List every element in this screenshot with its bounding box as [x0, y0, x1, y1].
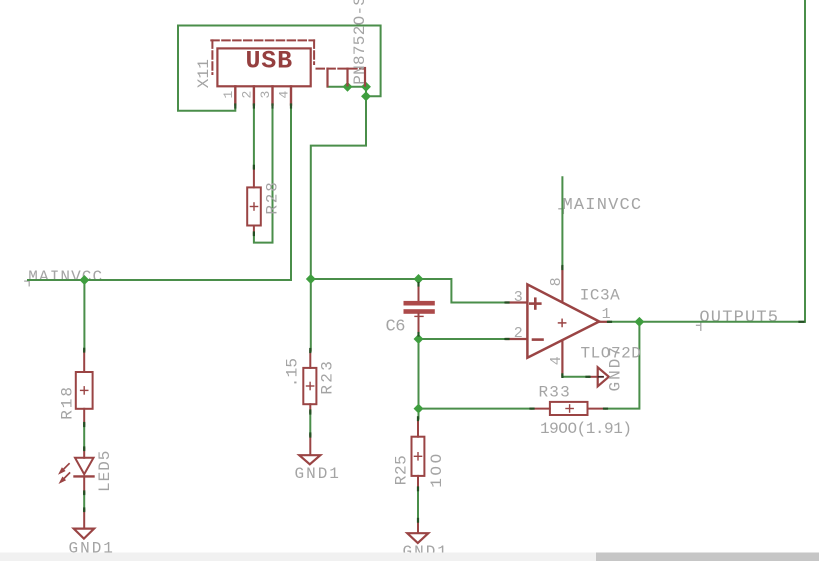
op-amp plus input symbol [530, 299, 540, 309]
resistor R23 plus [307, 382, 314, 389]
wire down to R23 [310, 279, 312, 351]
resistor R33 lead right [588, 408, 606, 410]
svg-text:4: 4 [548, 356, 565, 365]
LED5 cathode bar [75, 475, 94, 477]
resistor R23 lead bottom [309, 404, 311, 412]
wire USB pin2 down [253, 107, 255, 168]
svg-text:8: 8 [548, 277, 565, 286]
op-amp IC3A triangle [527, 284, 599, 357]
LED5 triangle [75, 458, 94, 474]
scrollbar thumb [596, 553, 819, 561]
connector X11 shield pin c [364, 68, 366, 86]
resistor R25 plus [414, 453, 421, 460]
wire op-amp pin4 to GND7 [562, 376, 589, 377]
wire R23 to GND1 [309, 412, 311, 435]
scrollbar track [0, 553, 819, 561]
wire shield vertical [365, 87, 367, 97]
svg-text:3: 3 [258, 91, 273, 99]
resistor R18 plus [81, 387, 88, 394]
connector X11 shield pin b [346, 69, 348, 86]
junction C6 top [414, 274, 424, 284]
wire node to op-amp pin3 [311, 279, 507, 303]
svg-text:4: 4 [277, 91, 292, 99]
ground GND1 mid symbol [299, 455, 320, 464]
connector X11 dashed outline left [211, 40, 213, 74]
svg-text:C6: C6 [386, 318, 406, 337]
svg-text:PN8752O-S: PN8752O-S [351, 0, 369, 85]
connector X11 dashed outline right [313, 40, 315, 64]
resistor R18 lead top [83, 350, 85, 372]
ground GND1 mid lead [309, 435, 311, 458]
capacitor C6 plate top [404, 301, 435, 306]
capacitor C6 lead top [418, 284, 420, 301]
LED5 arrow 1 [58, 464, 69, 475]
ground GND1 left symbol [74, 529, 94, 539]
wire pin1 loop (USB pin1 to top rail) [178, 26, 381, 111]
LED5 arrow 2 [59, 473, 70, 484]
wire tip darks [84, 166, 803, 522]
resistor R33 body [550, 402, 588, 415]
junction C6 bottom [414, 334, 424, 344]
junction shield left [343, 82, 353, 92]
pin tip dark 3 [271, 105, 273, 108]
svg-text:USB: USB [246, 47, 293, 76]
svg-text:R18: R18 [59, 385, 77, 420]
ground GND7 lead [589, 376, 598, 378]
svg-text:MAINVCC: MAINVCC [563, 196, 643, 215]
connector X11 dashed shield line [317, 68, 366, 70]
junction output [634, 317, 644, 327]
svg-text:1: 1 [602, 306, 611, 323]
junction shield right [361, 82, 371, 92]
op-amp pin 4 lead [561, 341, 563, 376]
junction R25 top [414, 404, 424, 414]
wire shield horizontal [328, 86, 367, 88]
ground GND7 inner tick [599, 376, 604, 378]
wire op-amp output to OUTPUT5 [609, 321, 805, 323]
svg-text:R28: R28 [264, 180, 282, 214]
wire C6 bottom to R25 [418, 334, 420, 419]
svg-text:.15: .15 [284, 358, 302, 387]
pin tip dark 4 [290, 105, 292, 108]
ground GND1 bottom symbol [407, 533, 428, 543]
resistor R33 plus [566, 405, 573, 412]
junction R23 column [306, 274, 316, 284]
label origin cross MAINVCC left [25, 280, 29, 285]
op-amp pin 3 lead [506, 301, 526, 303]
resistor R28 lead bottom [253, 226, 255, 234]
svg-text:IC3A: IC3A [580, 286, 620, 304]
junction below shield [361, 91, 371, 101]
svg-text:OUTPUT5: OUTPUT5 [699, 309, 779, 328]
connector X11 dashed outline top [211, 39, 314, 41]
wire MAINVCC down to R18 [83, 280, 85, 350]
svg-text:GND1: GND1 [295, 465, 341, 483]
wire C6 bottom to op-amp pin2 [419, 338, 507, 340]
op-amp pin 2 lead [506, 338, 526, 340]
svg-text:1: 1 [221, 91, 236, 99]
resistor R28 plus [250, 203, 257, 210]
resistor R25 body [412, 437, 425, 476]
svg-text:R33: R33 [539, 383, 571, 401]
connector X11 pin 2 stub [253, 86, 255, 104]
junction MAINVCC R18 [79, 275, 89, 285]
svg-text:MAINVCC: MAINVCC [28, 268, 103, 286]
wire C6 top junction stub [418, 279, 420, 285]
label origin cross MAINVCC top [559, 208, 564, 213]
wire LED5 to GND1 [83, 493, 85, 510]
connector X11 shield pin a [326, 69, 328, 87]
svg-text:1OO: 1OO [428, 451, 446, 488]
resistor R25 lead top [417, 419, 419, 437]
label origin cross OUTPUT5 [697, 323, 701, 330]
connector X11 pin 3 stub [271, 86, 273, 104]
resistor R18 lead bottom [83, 409, 85, 425]
resistor R18 body [76, 372, 93, 409]
svg-text:2: 2 [239, 91, 254, 99]
op-amp output lead [599, 321, 609, 323]
wire shield down to R23 column [311, 96, 366, 279]
capacitor C6 plus mark [415, 315, 423, 317]
connector X11 USB solid box [217, 48, 310, 86]
op-amp pin 8 lead [561, 267, 563, 301]
ground GND1 bottom lead [417, 520, 419, 536]
svg-text:LED5: LED5 [96, 450, 114, 492]
LED5 lead top [83, 449, 85, 458]
wire MAINVCC rail to USB pin4 [28, 107, 291, 281]
svg-text:3: 3 [514, 289, 523, 306]
svg-text:2: 2 [514, 325, 523, 342]
svg-text:19OO(1.91): 19OO(1.91) [540, 420, 632, 438]
resistor R23 body [303, 368, 316, 404]
wire node to R33 left [419, 408, 532, 410]
svg-text:R25: R25 [393, 455, 411, 485]
op-amp minus input symbol [533, 338, 543, 341]
wire MAINVCC to op-amp pin8 [561, 177, 563, 267]
wire OUTPUT5 up right edge [804, 0, 806, 322]
wire R28 bottom to USB pin3 [254, 107, 273, 243]
op-amp center plus [559, 319, 566, 326]
wire R33 right to output [606, 322, 640, 409]
ground GND7 symbol [598, 367, 609, 386]
pin tip dark 2 [253, 105, 255, 108]
connector X11 pin 4 stub [290, 86, 292, 104]
capacitor C6 lead bottom [418, 314, 420, 335]
LED5 lead bottom [83, 476, 85, 493]
resistor R33 lead left [532, 408, 550, 410]
svg-text:R23: R23 [319, 359, 337, 395]
resistor R23 lead top [309, 351, 311, 368]
resistor R28 lead top [253, 168, 255, 188]
wire R25 to GND1 [417, 489, 419, 521]
resistor R25 lead bottom [417, 476, 419, 489]
capacitor C6 plate bottom [404, 309, 435, 314]
connector X11 pin 1 stub [234, 86, 236, 104]
ground GND1 left lead [83, 510, 85, 532]
svg-text:X11: X11 [195, 59, 213, 88]
resistor R28 body [247, 187, 261, 225]
pin tip dark 1 [234, 105, 236, 108]
svg-text:GND7: GND7 [607, 345, 625, 391]
wire R18 to LED5 [83, 424, 85, 448]
